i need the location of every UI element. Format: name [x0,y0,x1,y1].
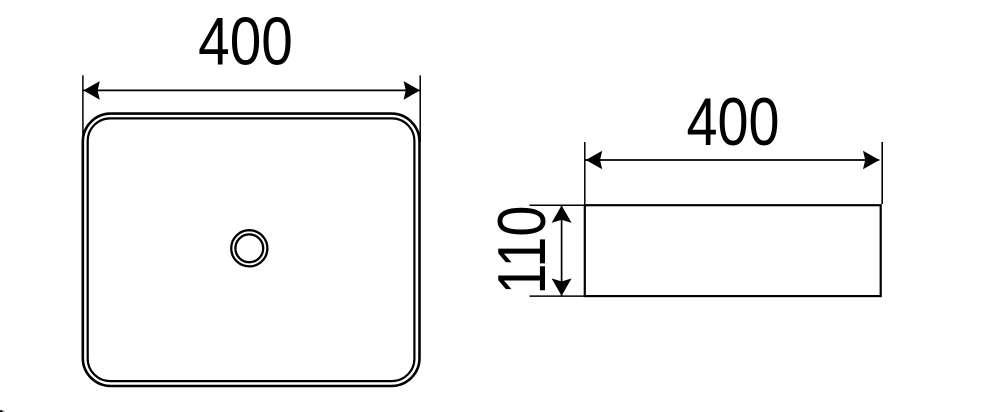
svg-text:400: 400 [198,4,293,80]
svg-text:110: 110 [485,206,560,295]
svg-text:400: 400 [686,85,779,160]
